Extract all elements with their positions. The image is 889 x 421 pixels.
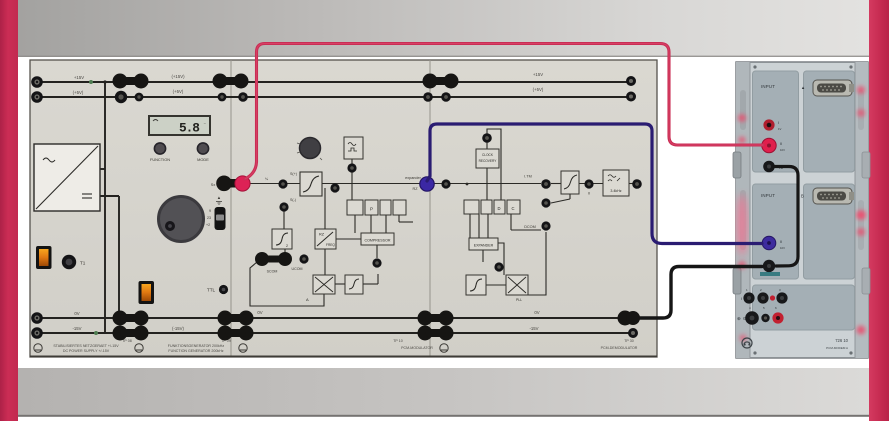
svg-text:RZ: RZ [319,233,325,237]
svg-text:(+5V): (+5V) [173,89,184,94]
svg-text:B: B [801,194,804,199]
svg-text:5.8: 5.8 [179,121,199,136]
svg-text:(-15V): (-15V) [172,326,185,331]
svg-text:PLL: PLL [516,298,522,302]
svg-text:S(-): S(-) [290,198,296,202]
svg-text:TP 30: TP 30 [624,339,634,343]
svg-text:(+15V): (+15V) [171,74,185,79]
svg-text:+15V: +15V [74,75,84,80]
svg-text:FUNKTIONSGENERATOR 200kHz: FUNKTIONSGENERATOR 200kHz [168,344,225,348]
svg-text:+15V: +15V [533,72,543,77]
svg-text:COMPRESSOR: COMPRESSOR [365,239,391,243]
svg-text:P: P [370,207,373,212]
svg-text:I.TM: I.TM [524,175,532,179]
svg-text:II: II [780,141,782,146]
svg-text:CLOCK: CLOCK [482,153,494,157]
svg-text:FUNCTION GENERATOR 200kHz: FUNCTION GENERATOR 200kHz [168,349,223,353]
svg-text:10V: 10V [780,246,785,250]
svg-text:10V: 10V [780,148,785,152]
svg-text:I: I [778,120,779,125]
svg-text:FUNCTION: FUNCTION [150,157,170,162]
svg-text:A: A [306,297,309,302]
svg-text:EXPANDER: EXPANDER [474,244,494,248]
svg-text:DC POWER SUPPLY +/-15V: DC POWER SUPPLY +/-15V [63,349,110,353]
svg-text:TTL: TTL [207,288,216,293]
svg-text:INPUT: INPUT [761,193,775,198]
svg-text:PCM-MODEM A: PCM-MODEM A [826,346,848,350]
svg-text:RZ: RZ [412,187,418,191]
svg-text:23: 23 [207,216,211,220]
svg-text:II: II [780,239,782,244]
svg-text:PCM-MODULATOR: PCM-MODULATOR [401,346,433,350]
svg-text:PCM-DEMODULATOR: PCM-DEMODULATOR [601,346,638,350]
svg-text:(+5V): (+5V) [73,90,84,95]
svg-text:MODE: MODE [197,157,209,162]
svg-text:-15V: -15V [529,326,538,331]
svg-text:726 10: 726 10 [835,338,848,343]
svg-text:INPUT: INPUT [761,84,775,89]
svg-text:▲: ▲ [217,195,221,200]
svg-text:⊕: ⊕ [737,316,741,321]
svg-text:DCOM: DCOM [524,225,536,229]
svg-text:STABILISIERTES NETZGERAET +/-1: STABILISIERTES NETZGERAET +/-15V [53,344,119,348]
svg-text:0V: 0V [257,310,262,315]
svg-text:UCOM: UCOM [292,267,303,271]
svg-text:0V: 0V [534,310,539,315]
svg-text:II: II [588,192,590,196]
svg-text:FREQ: FREQ [326,243,335,247]
svg-text:-15V: -15V [72,326,81,331]
svg-text:expander: expander [405,176,422,180]
svg-text:SCOM: SCOM [267,270,278,274]
svg-text:D: D [497,206,500,211]
svg-text:TP 08: TP 08 [122,339,132,343]
svg-text:▲: ▲ [801,85,805,90]
svg-text:2: 2 [286,244,288,248]
svg-text:Sx: Sx [211,183,216,187]
svg-text:(+5V): (+5V) [533,87,544,92]
svg-text:C: C [511,206,514,211]
svg-text:S(+): S(+) [290,172,297,176]
svg-text:T1: T1 [80,261,86,266]
svg-text:1V: 1V [778,127,782,131]
svg-text:RECOVERY: RECOVERY [479,159,498,163]
svg-text:9: 9 [209,209,211,213]
svg-text:+2: +2 [206,223,210,227]
svg-text:3.4kHz: 3.4kHz [610,189,621,193]
svg-text:I: I [741,296,742,301]
svg-text:TP 10: TP 10 [393,339,403,343]
svg-text:0V: 0V [74,311,79,316]
